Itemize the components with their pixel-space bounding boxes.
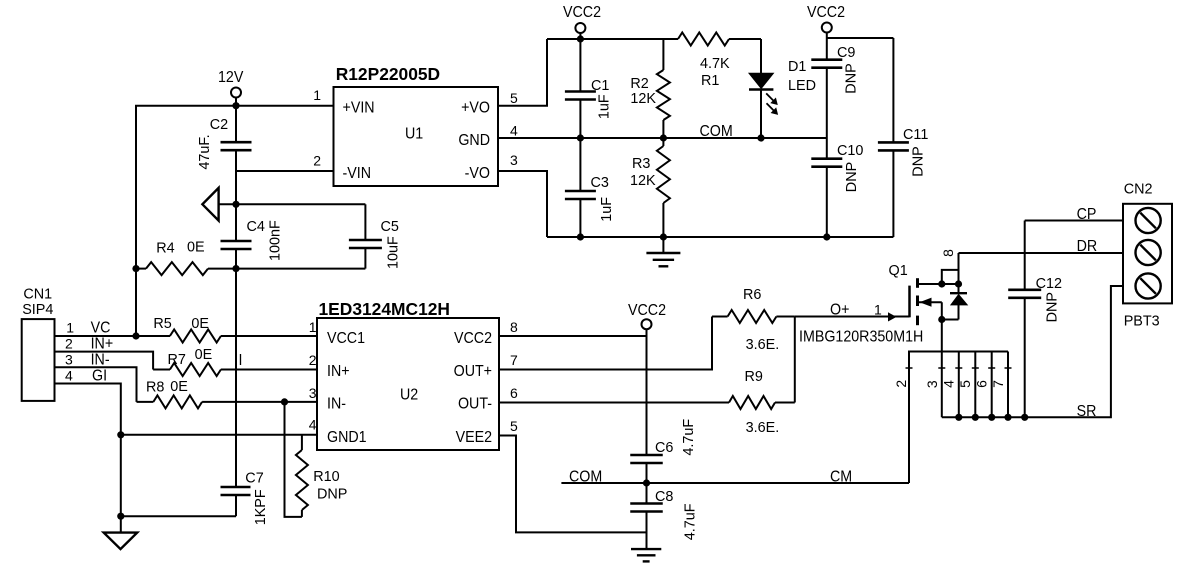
svg-text:DNP: DNP <box>911 146 927 176</box>
power terminal 12V <box>218 70 243 106</box>
node flag on -VIN net <box>202 188 236 221</box>
svg-text:C9: C9 <box>837 45 855 61</box>
svg-text:12K: 12K <box>630 173 656 189</box>
pin 4 U1 <box>510 123 518 139</box>
svg-text:3: 3 <box>309 385 317 401</box>
svg-text:C2: C2 <box>210 117 228 133</box>
pin 3 Q1 <box>924 368 945 388</box>
svg-text:3: 3 <box>510 152 518 168</box>
svg-text:3: 3 <box>65 351 73 367</box>
ground below C8 (3-bar) <box>631 549 661 561</box>
pin 5 U1 <box>510 90 518 106</box>
pin 3 CN1 (IN-) <box>55 351 137 402</box>
junction SR 1 <box>955 414 962 421</box>
svg-text:C7: C7 <box>245 471 263 487</box>
resistor R8 0E <box>137 379 318 408</box>
wire SR rail <box>942 286 1123 420</box>
wire U2 OUT- to R9 <box>499 402 729 404</box>
svg-text:CP: CP <box>1077 207 1097 224</box>
resistor R6 3.6E <box>712 287 795 353</box>
svg-text:Q1: Q1 <box>889 263 908 279</box>
svg-text:4: 4 <box>510 123 518 139</box>
junction R4 right <box>232 265 239 272</box>
svg-text:C4: C4 <box>247 219 265 235</box>
junction drain b <box>955 280 962 287</box>
svg-text:C8: C8 <box>655 489 673 505</box>
junction SR 3 <box>988 414 995 421</box>
svg-text:IN-: IN- <box>91 352 110 369</box>
pin 2 Q1 <box>893 368 912 388</box>
svg-text:-VIN: -VIN <box>343 166 371 183</box>
svg-text:OUT+: OUT+ <box>454 364 492 381</box>
junction source/diode <box>938 316 945 323</box>
capacitor C10 DNP <box>811 138 863 237</box>
svg-text:R10: R10 <box>313 469 339 485</box>
transistor Q1 <box>889 263 918 325</box>
junction drain a <box>938 280 945 287</box>
wire O+ to Q1 gate <box>795 302 910 319</box>
op-amp U2 (gate driver 1ED3124MC12H) <box>317 299 499 450</box>
pin 8 Q1 <box>940 249 956 257</box>
junction C3 bottom <box>577 233 584 240</box>
pin 2 U2 <box>309 352 317 368</box>
svg-text:DR: DR <box>1077 239 1098 256</box>
svg-text:0E: 0E <box>187 240 205 256</box>
svg-text:R7: R7 <box>168 352 186 368</box>
svg-text:R5: R5 <box>153 316 171 332</box>
capacitor C12 DNP <box>1008 221 1062 418</box>
LED arrows <box>766 93 778 115</box>
junction 12V node <box>232 102 239 109</box>
svg-text:0E: 0E <box>170 379 188 395</box>
svg-text:C10: C10 <box>837 143 863 159</box>
svg-text:4: 4 <box>65 368 73 384</box>
pin 8 U2 <box>510 319 518 335</box>
svg-text:PBT3: PBT3 <box>1124 313 1160 329</box>
svg-text:5: 5 <box>957 380 973 388</box>
svg-text:OUT-: OUT- <box>458 396 492 413</box>
wire drain loop <box>942 253 959 284</box>
svg-text:I: I <box>239 353 243 370</box>
svg-text:DNP: DNP <box>844 162 860 192</box>
capacitor C11 DNP <box>878 38 928 237</box>
wire DR (Q1 pin8 to CN2) <box>959 239 1124 256</box>
capacitor C6 4.7uF <box>630 336 697 483</box>
LED D1 <box>749 39 816 138</box>
svg-text:-VO: -VO <box>465 166 490 183</box>
pin 1 U2 <box>309 319 317 335</box>
wire bottom rail C5 to R4 <box>236 268 365 270</box>
svg-text:2: 2 <box>309 352 317 368</box>
svg-text:3.6E.: 3.6E. <box>746 420 780 436</box>
wire U1 GND rail (COM) <box>498 124 827 141</box>
capacitor C2 <box>197 106 252 205</box>
svg-text:DNP: DNP <box>844 63 860 93</box>
wire Q1 pin2 net (source sense to CM) <box>909 352 1008 484</box>
svg-text:U1: U1 <box>405 126 423 143</box>
svg-text:GI: GI <box>92 368 107 385</box>
svg-text:2: 2 <box>65 335 73 351</box>
svg-text:DNP: DNP <box>317 487 347 503</box>
svg-text:8: 8 <box>510 319 518 335</box>
junction CN1 VC / 12V rail <box>132 332 139 339</box>
svg-text:1: 1 <box>309 319 317 335</box>
junction GI / C7 bottom <box>117 513 124 520</box>
resistor R7 0E <box>153 347 317 376</box>
pin 6 Q1 <box>973 352 995 418</box>
resistor R2 12K <box>630 39 670 138</box>
svg-text:GND1: GND1 <box>327 430 367 447</box>
svg-text:1: 1 <box>66 320 74 336</box>
wire Q1 source down to SR rail <box>941 302 943 417</box>
svg-text:1ED3124MC12H: 1ED3124MC12H <box>319 299 450 319</box>
svg-text:R3: R3 <box>632 156 650 172</box>
svg-text:0E: 0E <box>191 316 209 332</box>
svg-text:12V: 12V <box>218 70 243 87</box>
svg-text:2: 2 <box>313 153 321 169</box>
svg-text:R2: R2 <box>630 76 648 92</box>
svg-text:SR: SR <box>1077 404 1097 421</box>
svg-text:2: 2 <box>893 380 909 388</box>
svg-text:4: 4 <box>941 380 957 388</box>
svg-text:1uF: 1uF <box>599 197 615 222</box>
svg-text:GND: GND <box>458 133 490 150</box>
svg-text:1KPF: 1KPF <box>253 489 269 525</box>
junction C4 top node <box>232 201 239 208</box>
wire U1 -VIN to C2 line <box>236 170 334 172</box>
pin 1 CN1 (VC) <box>55 320 137 337</box>
svg-text:R12P22005D: R12P22005D <box>336 64 440 84</box>
svg-text:1: 1 <box>313 87 321 103</box>
junction VCC2/C1 <box>577 35 584 42</box>
wire 12V rail to U1 +VIN and left rail down to CN1 <box>136 106 334 336</box>
wire CP to C12 <box>1025 207 1123 224</box>
svg-text:VCC2: VCC2 <box>454 331 492 348</box>
svg-text:1uF: 1uF <box>597 94 613 119</box>
screw terminal 2 CN2 <box>1136 240 1161 265</box>
svg-text:IN-: IN- <box>327 396 346 413</box>
svg-text:C5: C5 <box>381 219 399 235</box>
connector CN1 SIP4 <box>22 286 55 401</box>
wire R6/R9 tie <box>794 317 796 403</box>
wire U2 VCC2 pin8 to VCC2 terminal <box>499 335 647 337</box>
wire C4 node to C5 top <box>236 203 365 205</box>
capacitor C5 <box>349 204 402 269</box>
screw terminal 3 CN2 <box>1136 273 1161 298</box>
svg-text:C12: C12 <box>1036 276 1062 292</box>
capacitor C8 4.7uF <box>630 483 698 549</box>
pin 7 U2 <box>510 352 518 368</box>
svg-text:D1: D1 <box>788 59 806 75</box>
svg-text:100nF: 100nF <box>268 220 284 261</box>
ground input side (triangle) <box>104 533 138 550</box>
svg-text:0E: 0E <box>195 347 213 363</box>
pin 5 U2 <box>510 418 518 434</box>
svg-text:4.7uF: 4.7uF <box>683 503 699 540</box>
resistor R10 DNP <box>296 435 347 517</box>
svg-text:VCC2: VCC2 <box>563 5 601 22</box>
svg-text:4.7K: 4.7K <box>700 56 730 72</box>
resistor R9 3.6E <box>729 369 795 436</box>
svg-text:5: 5 <box>510 90 518 106</box>
wire secondary bottom rail <box>547 236 893 238</box>
svg-text:CN1: CN1 <box>23 286 52 302</box>
power terminal VCC2 mid <box>628 303 666 336</box>
svg-text:R1: R1 <box>701 73 719 89</box>
capacitor C4 <box>221 204 284 268</box>
svg-text:R8: R8 <box>146 380 164 396</box>
svg-text:LED: LED <box>788 78 816 94</box>
junction SR C12 <box>1021 414 1028 421</box>
junction COM node <box>643 479 650 486</box>
wire Q1 source lead <box>918 298 942 307</box>
pin 2 CN1 (IN+) <box>55 335 154 369</box>
value label IMBG120R350M1H <box>799 329 923 346</box>
ground secondary (3-bar) <box>646 237 680 266</box>
pin 3 U2 <box>309 385 317 401</box>
wire U2 VEE2 to C8 ground <box>499 436 647 533</box>
svg-text:IN+: IN+ <box>327 364 350 381</box>
junction SR 2 <box>972 414 979 421</box>
svg-text:R6: R6 <box>743 287 761 303</box>
svg-text:VCC2: VCC2 <box>807 5 845 22</box>
svg-text:8: 8 <box>940 249 956 257</box>
capacitor C1 <box>565 39 613 138</box>
svg-text:O+: O+ <box>830 302 849 319</box>
svg-text:IN+: IN+ <box>91 336 114 353</box>
op-amp U1 (DC/DC converter R12P22005D) <box>334 64 499 186</box>
svg-text:R9: R9 <box>745 369 763 385</box>
svg-text:C6: C6 <box>655 440 673 456</box>
svg-text:DNP: DNP <box>1044 292 1060 322</box>
resistor R3 12K <box>630 138 670 237</box>
svg-text:1: 1 <box>874 302 882 318</box>
junction R4 left <box>132 265 139 272</box>
wire COM to CM <box>561 469 909 486</box>
power terminal VCC2 left <box>563 5 601 39</box>
resistor R5 0E <box>136 316 317 342</box>
svg-text:SIP4: SIP4 <box>22 302 53 318</box>
junction R3 bottom <box>660 233 667 240</box>
wire U1 -VO down to bottom rail <box>498 171 547 237</box>
junction GND1 / GI <box>117 431 124 438</box>
svg-text:COM: COM <box>700 124 733 141</box>
svg-text:+VO: +VO <box>461 100 490 117</box>
resistor R1 4.7K <box>678 33 730 90</box>
junction R2 bottom <box>660 134 667 141</box>
svg-text:12K: 12K <box>630 91 656 107</box>
wire U1 +VO to VCC2 top rail <box>498 39 547 106</box>
svg-text:CN2: CN2 <box>1124 182 1153 198</box>
svg-text:VCC1: VCC1 <box>327 331 365 348</box>
svg-text:+VIN: +VIN <box>343 100 375 117</box>
svg-text:R4: R4 <box>156 241 174 257</box>
pin 4 U2 <box>309 417 317 433</box>
capacitor C3 <box>565 138 615 237</box>
pin 4 Q1 <box>941 352 963 418</box>
pin 3 U1 <box>510 152 518 168</box>
capacitor C9 DNP <box>811 38 859 138</box>
pin 5 Q1 <box>957 352 979 418</box>
svg-text:C11: C11 <box>903 127 928 143</box>
junction C1 bottom <box>577 134 584 141</box>
wire Q1 drain lead <box>918 283 959 285</box>
wire VCC2 right rail to C11 <box>827 37 894 39</box>
svg-text:6: 6 <box>973 380 989 388</box>
wire input common vertical (net I) <box>236 269 242 487</box>
junction IN- / R10 branch <box>281 398 288 405</box>
svg-text:CM: CM <box>830 469 852 486</box>
svg-text:IMBG120R350M1H: IMBG120R350M1H <box>799 329 923 346</box>
svg-text:VCC2: VCC2 <box>628 303 666 320</box>
svg-text:47uF.: 47uF. <box>197 134 213 169</box>
wire IN- to R10 bottom <box>285 402 302 517</box>
svg-text:3.6E.: 3.6E. <box>746 337 780 353</box>
svg-text:VC: VC <box>91 320 111 337</box>
pin 4 CN1 (GI) <box>55 368 121 533</box>
svg-text:3: 3 <box>924 380 940 388</box>
svg-text:7: 7 <box>990 380 1006 388</box>
svg-text:6: 6 <box>510 385 518 401</box>
svg-text:7: 7 <box>510 352 518 368</box>
pin 1 U1 <box>313 87 321 103</box>
pin 6 U2 <box>510 385 518 401</box>
body diode Q1 <box>942 284 967 320</box>
svg-text:C3: C3 <box>591 175 609 191</box>
junction LED bottom <box>757 134 764 141</box>
pin 7 Q1 <box>990 352 1012 418</box>
pin 2 U1 <box>313 153 321 169</box>
wire U2 OUT+ up to R6 <box>499 317 712 370</box>
pin 1 Q1 marker <box>888 312 897 321</box>
svg-text:VEE2: VEE2 <box>456 430 492 447</box>
svg-text:U2: U2 <box>400 387 418 404</box>
svg-text:5: 5 <box>510 418 518 434</box>
junction C10 bottom <box>823 233 830 240</box>
capacitor C7 1KPF <box>121 471 269 526</box>
svg-text:10uF: 10uF <box>386 236 402 269</box>
resistor R4 0E <box>136 240 236 276</box>
svg-text:COM: COM <box>569 469 602 486</box>
svg-text:4: 4 <box>309 417 317 433</box>
wire VCC2 top rail <box>547 38 761 40</box>
screw terminal 1 CN2 <box>1136 208 1161 233</box>
svg-text:4.7uF: 4.7uF <box>681 419 697 456</box>
svg-text:C1: C1 <box>591 78 609 94</box>
junction SR 4 <box>1004 414 1011 421</box>
power terminal VCC2 right <box>807 5 845 38</box>
connector CN2 PBT3 <box>1123 182 1172 330</box>
wire GND1 rail <box>121 434 317 436</box>
